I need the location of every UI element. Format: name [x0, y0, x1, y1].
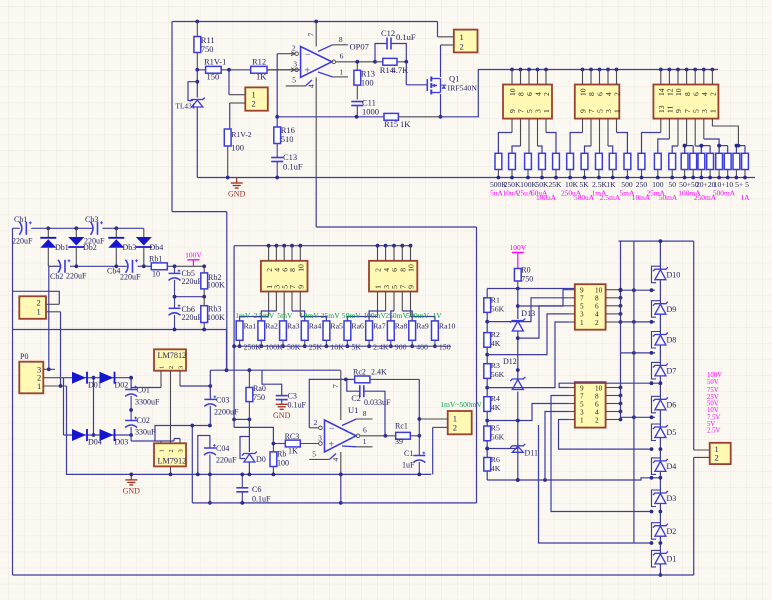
svg-text:8: 8 — [339, 35, 343, 44]
wire stair6 — [487, 404, 569, 423]
svg-text:R4: R4 — [491, 394, 500, 403]
wire pin7 feed vertical — [226, 212, 228, 371]
svg-text:2: 2 — [168, 366, 175, 369]
svg-text:D03: D03 — [115, 438, 129, 447]
capacitor Cb5 — [169, 266, 203, 296]
svg-text:+: + — [328, 440, 334, 451]
svg-text:220uF: 220uF — [216, 456, 237, 465]
resistor R15 — [384, 113, 441, 129]
svg-text:P0: P0 — [20, 352, 28, 361]
connector J11 pins — [569, 384, 622, 424]
svg-text:2: 2 — [292, 44, 296, 53]
capacitor Cb3 — [84, 215, 105, 246]
op-amp U2 pin2 stub — [277, 44, 298, 56]
wire LM7812 pin1 — [131, 371, 161, 388]
wire mid bus — [633, 241, 635, 543]
svg-text:1K: 1K — [400, 119, 411, 129]
wire right border — [693, 241, 695, 575]
svg-text:R2: R2 — [491, 330, 500, 339]
svg-text:50V: 50V — [707, 379, 719, 386]
svg-text:1: 1 — [37, 307, 41, 317]
svg-text:R1V-2: R1V-2 — [231, 130, 252, 139]
capacitor C12 — [373, 28, 416, 64]
wire -12V rail right end — [476, 227, 478, 503]
svg-text:50mA: 50mA — [659, 193, 678, 202]
svg-text:50mV: 50mV — [342, 311, 362, 320]
svg-text:100uA: 100uA — [536, 193, 557, 202]
svg-text:5mV: 5mV — [277, 311, 293, 320]
svg-text:500mA: 500mA — [713, 188, 736, 197]
svg-text:500uA: 500uA — [574, 193, 595, 202]
wire Q1 source to bus — [441, 70, 719, 117]
svg-text:1: 1 — [613, 109, 622, 113]
svg-text:D12: D12 — [503, 357, 517, 366]
wire stair1 — [487, 298, 569, 322]
svg-text:Ra9: Ra9 — [416, 322, 429, 331]
resistor Ra0 — [246, 370, 266, 419]
resistor R3 — [484, 361, 505, 379]
svg-text:3: 3 — [293, 60, 297, 69]
svg-text:D0: D0 — [256, 455, 266, 464]
svg-text:RC3: RC3 — [285, 432, 300, 441]
connector J8 — [369, 261, 417, 292]
svg-text:1K: 1K — [606, 180, 616, 189]
resistor R14 — [375, 58, 409, 75]
svg-text:Rb: Rb — [277, 450, 286, 459]
node 100V right flag — [509, 243, 526, 269]
wire tap D9 D8 — [621, 320, 656, 324]
svg-text:D3: D3 — [667, 494, 677, 503]
svg-text:75V: 75V — [707, 387, 719, 394]
labels mV ranges — [235, 311, 442, 320]
wire bottom rail — [13, 574, 694, 576]
svg-text:D5: D5 — [667, 428, 677, 437]
svg-text:1: 1 — [340, 67, 344, 76]
capacitor C02 — [125, 408, 156, 441]
svg-text:C12: C12 — [381, 28, 395, 38]
op-amp U1 pin8 — [342, 409, 373, 425]
svg-text:56K: 56K — [491, 433, 505, 442]
svg-text:8: 8 — [363, 409, 367, 418]
svg-text:4K: 4K — [491, 403, 501, 412]
resistor RC3 — [272, 432, 301, 456]
wire LM7912 pins — [131, 424, 212, 444]
op-amp U1 pin6 output — [356, 426, 396, 438]
svg-text:Db3: Db3 — [123, 243, 137, 252]
svg-text:6: 6 — [595, 400, 599, 408]
op-amp U1 — [325, 370, 359, 503]
node 100V left flag — [173, 250, 207, 268]
svg-text:3: 3 — [580, 311, 584, 319]
labels voltage list — [707, 372, 722, 435]
svg-text:Cb2: Cb2 — [50, 272, 63, 281]
svg-text:2: 2 — [453, 423, 457, 433]
diode Db4 — [136, 228, 163, 266]
svg-text:D13: D13 — [521, 309, 535, 318]
svg-text:250mA: 250mA — [694, 193, 717, 202]
svg-text:10mV: 10mV — [300, 311, 320, 320]
svg-text:GND: GND — [123, 486, 141, 495]
svg-text:Ra3: Ra3 — [287, 322, 300, 331]
diode D04 — [72, 429, 102, 447]
wire stair3 — [487, 314, 569, 355]
svg-text:GND: GND — [228, 190, 246, 199]
svg-text:D6: D6 — [667, 401, 677, 410]
svg-text:Db4: Db4 — [150, 243, 164, 252]
svg-text:25mV: 25mV — [321, 311, 341, 320]
capacitor C6 — [236, 473, 271, 505]
svg-text:C1: C1 — [404, 449, 413, 458]
svg-text:7: 7 — [580, 392, 584, 400]
svg-text:39: 39 — [395, 437, 403, 446]
svg-text:Ra2: Ra2 — [265, 322, 278, 331]
resistor Rc2 — [353, 368, 419, 383]
wire P0 pin1 GND net — [43, 384, 431, 474]
svg-text:1K: 1K — [256, 72, 267, 82]
svg-text:1K: 1K — [288, 447, 298, 456]
svg-text:4: 4 — [595, 408, 599, 416]
connector J4 — [575, 85, 620, 119]
capacitor C11 — [351, 98, 379, 117]
connector J5 pins — [657, 70, 718, 114]
op-amp U1 pin3 — [300, 434, 322, 446]
connector J7 pins — [265, 246, 306, 289]
op-amp U1 pin5 — [309, 449, 336, 459]
svg-text:750: 750 — [253, 393, 265, 402]
svg-text:1000: 1000 — [362, 107, 379, 117]
svg-text:C03: C03 — [216, 396, 229, 405]
op-amp U2 pin5 stub — [286, 76, 312, 86]
svg-text:C3: C3 — [288, 392, 297, 401]
resistor R4 — [484, 394, 501, 412]
wire J4 routing — [570, 119, 627, 154]
connector J6 pins 2 1 — [13, 291, 61, 386]
wire -12V rail — [192, 501, 476, 505]
svg-text:C6: C6 — [252, 485, 261, 494]
capacitor C01 — [125, 386, 160, 411]
resistor R12 — [251, 57, 268, 82]
capacitor C13 — [271, 144, 303, 178]
svg-text:Ra1: Ra1 — [244, 322, 257, 331]
svg-text:D02: D02 — [115, 381, 129, 390]
svg-text:5: 5 — [580, 303, 584, 311]
svg-text:Ra4: Ra4 — [309, 322, 322, 331]
capacitor C2 — [347, 379, 391, 435]
svg-text:2.5V: 2.5V — [707, 428, 720, 435]
svg-text:Q1: Q1 — [449, 74, 459, 84]
svg-text:1: 1 — [460, 32, 464, 42]
svg-text:1V: 1V — [432, 311, 442, 320]
svg-text:8: 8 — [595, 295, 599, 303]
svg-text:9: 9 — [580, 384, 584, 392]
resistor R5 — [484, 424, 505, 442]
wire Q1 gate — [406, 62, 427, 85]
wire Cb5 Rb2 mid — [173, 295, 207, 299]
wire Ra bus dots — [267, 244, 413, 248]
svg-text:D8: D8 — [667, 336, 677, 345]
svg-text:GND: GND — [273, 411, 291, 420]
svg-text:D4: D4 — [667, 462, 677, 471]
wire stair4 — [487, 322, 569, 388]
connector P0 — [19, 352, 43, 393]
connector J2 pins 1 2 — [438, 22, 478, 53]
svg-text:10: 10 — [152, 270, 160, 279]
label output range — [440, 400, 482, 409]
svg-text:330uF: 330uF — [135, 428, 156, 437]
svg-text:−: − — [329, 424, 335, 435]
capacitor Cb6 — [169, 297, 203, 330]
svg-text:2.4K: 2.4K — [373, 343, 389, 352]
connector J3 pins — [508, 70, 551, 114]
wire left border — [12, 228, 14, 575]
svg-text:100K: 100K — [207, 281, 225, 290]
svg-text:1: 1 — [159, 366, 166, 369]
capacitor Cb2 — [50, 259, 87, 281]
svg-text:R5: R5 — [491, 424, 500, 433]
op-amp U2 pin1 stub — [318, 67, 348, 77]
svg-text:1: 1 — [580, 319, 584, 327]
svg-text:R15: R15 — [384, 119, 398, 129]
svg-text:1: 1 — [542, 109, 551, 113]
svg-text:5K: 5K — [351, 343, 361, 352]
svg-text:150: 150 — [207, 72, 220, 82]
svg-text:TL431: TL431 — [176, 102, 196, 111]
op-amp U1 pin1 — [342, 437, 373, 447]
wire D chain top — [619, 239, 694, 269]
svg-text:D10: D10 — [667, 270, 681, 279]
resistors Ra bank — [236, 321, 455, 352]
svg-text:R1: R1 — [491, 295, 500, 304]
wire D0 branch — [234, 418, 251, 422]
svg-text:Db2: Db2 — [83, 243, 97, 252]
capacitor C04 — [196, 436, 237, 505]
connector J3 — [503, 85, 552, 119]
svg-text:2.5mV: 2.5mV — [253, 311, 274, 320]
wire LM7812 pin2 — [169, 371, 173, 477]
diode D03 — [100, 429, 129, 447]
connector J11 — [575, 382, 606, 428]
diode Db2 — [68, 228, 96, 266]
svg-text:150: 150 — [439, 343, 451, 352]
wire J7 routing — [240, 292, 327, 321]
svg-text:4: 4 — [595, 311, 599, 319]
wire pin4 rail — [316, 226, 476, 228]
resistor R6 — [484, 455, 501, 473]
connector J9 output — [419, 411, 471, 474]
wire bridge top row — [64, 376, 134, 390]
svg-text:2: 2 — [252, 99, 256, 109]
svg-text:6: 6 — [340, 52, 344, 61]
svg-text:2: 2 — [542, 92, 551, 96]
capacitor C03 — [204, 396, 239, 426]
svg-text:250K: 250K — [244, 343, 262, 352]
svg-text:10V: 10V — [707, 407, 719, 414]
svg-text:Ra0: Ra0 — [253, 384, 266, 393]
svg-text:10mA: 10mA — [632, 193, 651, 202]
svg-text:LM7812: LM7812 — [158, 351, 187, 360]
svg-text:Ra10: Ra10 — [439, 322, 456, 331]
svg-text:750: 750 — [201, 44, 214, 54]
resistor R13 — [354, 60, 375, 100]
wire tap D7 D6 — [559, 381, 662, 387]
wire P0 pin2 — [43, 377, 63, 379]
svg-text:100mV: 100mV — [363, 311, 386, 320]
svg-text:0.1uF: 0.1uF — [396, 32, 416, 42]
svg-text:7: 7 — [580, 295, 584, 303]
svg-text:C01: C01 — [137, 386, 150, 395]
svg-text:D9: D9 — [667, 305, 677, 314]
svg-text:2200uF: 2200uF — [214, 408, 239, 417]
capacitor C3 — [262, 370, 307, 409]
connector J4 pins — [579, 70, 622, 114]
svg-text:220uF: 220uF — [12, 237, 33, 246]
diode D01 — [72, 372, 102, 390]
svg-text:5+ 5: 5+ 5 — [735, 180, 749, 189]
connector J5 — [653, 85, 718, 119]
connector J12 — [694, 443, 731, 464]
svg-text:6: 6 — [363, 426, 367, 435]
svg-text:2.5mA: 2.5mA — [600, 193, 621, 202]
svg-text:0.1uF: 0.1uF — [252, 495, 271, 504]
svg-text:2: 2 — [715, 453, 719, 463]
svg-text:2: 2 — [168, 449, 175, 452]
svg-text:R6: R6 — [491, 455, 500, 464]
svg-text:R3: R3 — [491, 361, 500, 370]
diode D13 — [510, 309, 535, 331]
svg-text:10: 10 — [595, 287, 603, 295]
wire tap D8 D7 — [621, 351, 656, 355]
svg-text:10: 10 — [297, 264, 306, 272]
svg-text:Cb4: Cb4 — [107, 267, 120, 276]
wire Q1 source — [439, 94, 443, 119]
resistor Rb — [270, 444, 289, 477]
wire parallel pair links — [683, 144, 745, 154]
wire R chain — [485, 312, 489, 480]
op-amp U2 OP07 — [301, 22, 332, 228]
svg-text:25K: 25K — [309, 343, 323, 352]
svg-text:10: 10 — [595, 384, 603, 392]
wire U1 feedback — [309, 378, 354, 428]
regulator LM7812 — [154, 349, 186, 370]
wire stair5 — [518, 290, 569, 306]
svg-text:Ra6: Ra6 — [351, 322, 364, 331]
connector J1 pins 1 2 — [229, 70, 268, 129]
resistor R1V-1 — [204, 57, 226, 82]
svg-text:U1: U1 — [348, 405, 358, 415]
connector J10 — [575, 284, 606, 330]
wire bridge left — [63, 378, 65, 435]
wire pin2 feedback vertical — [275, 54, 279, 127]
svg-text:100V: 100V — [185, 250, 202, 259]
svg-text:9: 9 — [407, 285, 416, 289]
svg-text:Ra7: Ra7 — [373, 322, 386, 331]
wire LM7812 pin3 — [180, 371, 212, 388]
svg-text:10K: 10K — [330, 343, 344, 352]
svg-text:LM7912: LM7912 — [158, 457, 187, 466]
wire tap D3 D2 — [551, 396, 662, 514]
wire Q1 drain — [440, 45, 442, 77]
svg-text:5: 5 — [580, 400, 584, 408]
svg-text:1mV: 1mV — [235, 311, 251, 320]
svg-text:3: 3 — [580, 408, 584, 416]
ground symbol C3 — [273, 402, 291, 420]
labels range currents — [490, 188, 750, 201]
connector J10 pins — [569, 287, 622, 327]
svg-text:0.1uF: 0.1uF — [288, 401, 307, 410]
diode D02 — [100, 372, 129, 390]
svg-text:220uF: 220uF — [66, 272, 87, 281]
svg-text:1A: 1A — [740, 193, 750, 202]
wire Ra bus — [232, 246, 410, 428]
wire tap D5 D4 — [559, 420, 663, 452]
wire tap D6 D5 — [621, 415, 656, 419]
svg-text:R1V-1: R1V-1 — [204, 57, 226, 67]
svg-text:C04: C04 — [216, 444, 229, 453]
wire -12V drop — [190, 424, 194, 503]
wire bridge mid — [92, 376, 96, 437]
svg-text:5: 5 — [292, 76, 296, 85]
svg-text:9: 9 — [580, 287, 584, 295]
svg-text:3: 3 — [178, 449, 185, 452]
wire right bus — [620, 241, 622, 419]
svg-text:2: 2 — [595, 416, 599, 424]
diode D0 — [240, 419, 266, 476]
wire 100V return — [13, 328, 227, 371]
resistors range bank — [495, 153, 748, 179]
svg-text:250mV: 250mV — [385, 311, 408, 320]
svg-text:3: 3 — [318, 434, 322, 443]
svg-text:900: 900 — [395, 343, 407, 352]
svg-text:D1: D1 — [667, 555, 677, 564]
svg-text:50K: 50K — [287, 343, 301, 352]
resistor Rb2 — [201, 266, 225, 296]
transistor Q1 IRF540N — [427, 74, 477, 95]
svg-text:750: 750 — [521, 275, 533, 284]
wire +12V top rail — [172, 20, 438, 212]
labels range values — [490, 180, 749, 189]
svg-text:R0: R0 — [521, 266, 530, 275]
transistor TL431 — [176, 70, 205, 178]
wire Ra common — [234, 345, 451, 347]
connector J7 — [261, 261, 308, 292]
ground symbol top — [228, 178, 246, 199]
svg-text:3: 3 — [178, 366, 185, 369]
svg-text:C13: C13 — [283, 152, 297, 162]
resistor Rb3 — [201, 297, 225, 330]
svg-text:100K: 100K — [207, 313, 225, 322]
wire J3 routing — [498, 119, 556, 154]
svg-text:100: 100 — [231, 143, 244, 153]
wire Rb RC3 branch — [234, 427, 273, 443]
wire bridge bottom row — [64, 433, 134, 437]
svg-text:100V: 100V — [509, 243, 526, 252]
wire tap D2 D1 — [539, 425, 663, 545]
wire stair2 — [518, 306, 569, 338]
svg-text:220uF: 220uF — [182, 277, 203, 286]
resistor R0 — [514, 266, 533, 288]
diode Db1 — [40, 228, 68, 266]
svg-text:400: 400 — [416, 343, 428, 352]
svg-text:Cb3: Cb3 — [85, 215, 98, 224]
svg-text:7: 7 — [331, 384, 340, 388]
resistor R2 — [484, 330, 501, 348]
resistor Rc1 — [395, 422, 419, 447]
svg-text:2: 2 — [709, 92, 718, 96]
svg-text:5: 5 — [312, 449, 316, 458]
svg-text:1: 1 — [37, 381, 41, 391]
svg-text:0.033uF: 0.033uF — [364, 398, 391, 407]
svg-text:4K: 4K — [491, 464, 501, 473]
